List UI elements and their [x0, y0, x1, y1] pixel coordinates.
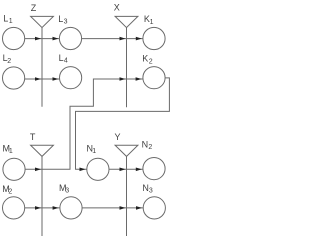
label Z [31, 3, 37, 13]
node L1 [3, 27, 25, 49]
arrow Z into L3 [53, 37, 59, 41]
label M3 [59, 183, 69, 194]
node M3 [60, 197, 82, 219]
wire L2 to L4 [25, 78, 60, 80]
svg-text:2: 2 [148, 144, 152, 151]
arrow Y into N3 [136, 206, 142, 210]
svg-text:2: 2 [8, 188, 12, 195]
svg-text:X: X [114, 3, 120, 13]
wire L1 to L3 [25, 38, 60, 40]
svg-text:2: 2 [7, 58, 11, 65]
wire T bus [41, 156, 43, 236]
node N3 [143, 197, 165, 219]
label L3 [58, 14, 67, 26]
svg-text:4: 4 [64, 58, 68, 65]
svg-text:1: 1 [9, 18, 13, 25]
label T [30, 132, 36, 142]
arrow riser into X [120, 77, 126, 81]
wire Y bus [126, 156, 128, 236]
arrow M1 into T [35, 168, 41, 172]
label N3 [142, 183, 153, 195]
svg-text:1: 1 [9, 148, 13, 155]
svg-text:Z: Z [31, 3, 37, 13]
label K1 [144, 14, 154, 26]
svg-text:T: T [30, 132, 36, 142]
node N2 [143, 158, 165, 180]
node M1 [3, 158, 25, 180]
node L3 [59, 27, 81, 49]
label L1 [3, 14, 12, 26]
arrow loop into N1 [80, 168, 86, 172]
label M2 [2, 184, 12, 196]
arrow X into K1 [136, 37, 142, 41]
label L4 [59, 53, 68, 65]
arrow M3 into Y [120, 206, 126, 210]
wire L3 to K1 [82, 38, 143, 40]
label M1 [3, 143, 13, 155]
node M2 [3, 197, 25, 219]
node K2 [143, 67, 165, 89]
label L2 [3, 53, 12, 65]
node L4 [60, 67, 82, 89]
wire K2 output loop to N1 [76, 78, 170, 169]
label N1 [87, 144, 97, 156]
svg-text:Y: Y [115, 132, 121, 142]
svg-text:L: L [59, 53, 64, 63]
svg-text:3: 3 [65, 187, 69, 194]
arrow L2 into Z [35, 77, 41, 81]
svg-text:N: N [142, 139, 149, 149]
arrow M2 into T [35, 206, 41, 210]
wire X bus [126, 28, 128, 108]
wire M2 to M3 [25, 207, 60, 209]
label K2 [142, 54, 153, 66]
svg-text:L: L [3, 14, 8, 24]
arrow Y into N2 [136, 168, 142, 172]
wire Z bus [41, 28, 43, 107]
node L2 [3, 67, 25, 89]
node N1 [87, 158, 109, 180]
label X [114, 3, 120, 13]
arrow T into M3 [53, 206, 59, 210]
amplifier X [115, 16, 138, 27]
wire M1 to T riser into K2 [25, 79, 143, 169]
svg-text:K: K [142, 54, 148, 64]
amplifier Y [115, 145, 138, 156]
amplifier Z [31, 16, 54, 27]
wire M3 to N3 [82, 207, 143, 209]
svg-text:2: 2 [149, 59, 153, 66]
svg-text:1: 1 [92, 148, 96, 155]
arrow N1 into Y [120, 168, 126, 172]
arrow L3 into X [120, 37, 126, 41]
svg-text:3: 3 [149, 188, 153, 195]
amplifier T [31, 145, 54, 156]
arrow X into K2 [136, 77, 142, 81]
arrow L1 into Z [35, 37, 41, 41]
arrow Z into L4 [53, 77, 59, 81]
wire N1 to N2 [109, 168, 143, 170]
svg-text:3: 3 [64, 18, 68, 25]
label Y [115, 132, 121, 142]
svg-text:1: 1 [150, 19, 154, 26]
svg-text:L: L [58, 14, 63, 24]
label N2 [142, 139, 153, 151]
node K1 [143, 27, 165, 49]
